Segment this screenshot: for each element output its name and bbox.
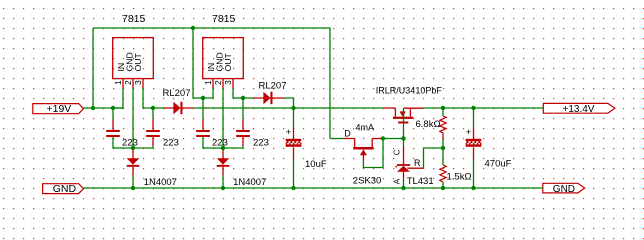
svg-text:3: 3 <box>223 80 233 85</box>
wire reg1 in pin <box>113 88 123 108</box>
junction C2 <box>151 106 155 110</box>
svg-text:223: 223 <box>253 138 269 149</box>
net tag GND left <box>43 184 84 194</box>
junction C6 gnd <box>471 186 475 190</box>
net tag GND right <box>543 183 585 193</box>
svg-text:IRLR/U3410PbF: IRLR/U3410PbF <box>376 86 443 96</box>
svg-text:223: 223 <box>212 138 228 149</box>
svg-text:+: + <box>466 127 472 138</box>
wire reg1 out pin <box>143 88 163 108</box>
wire 1.5k bottom <box>442 182 444 188</box>
wire mosfet gate <box>403 108 405 138</box>
junction C6 top <box>471 106 475 110</box>
wire 6.8k top <box>442 108 444 116</box>
capacitor C5 10uF plates <box>286 139 302 147</box>
svg-text:+19V: +19V <box>47 103 72 115</box>
diode 1N4007 D4 body <box>217 158 229 165</box>
wire main rail mid <box>193 107 384 109</box>
capacitor C2 plates <box>146 130 160 132</box>
regulator U1 pin stubs <box>123 79 143 88</box>
wire diode D4 to gnd rail <box>222 176 224 189</box>
junction C3 C4 gnd <box>221 146 225 150</box>
svg-text:2: 2 <box>123 80 133 85</box>
svg-text:1: 1 <box>113 80 123 85</box>
wire cap C5 bottom <box>293 159 295 189</box>
wire 1.5k top <box>442 148 444 165</box>
wire jfet gate loop <box>363 139 383 168</box>
diode RL207 D2 body <box>263 92 270 104</box>
junction divider node <box>441 146 445 150</box>
diode RL207 D2 leads <box>253 97 283 99</box>
wire main rail left <box>84 107 124 109</box>
svg-text:GND: GND <box>553 184 575 195</box>
capacitor C4 plates <box>236 130 250 132</box>
svg-text:RL207: RL207 <box>163 88 191 99</box>
svg-text:GND: GND <box>53 183 77 195</box>
jfet Q2 channel bar <box>353 147 373 150</box>
svg-text:2: 2 <box>213 80 223 85</box>
wire cap C3 bottom L <box>203 137 223 148</box>
junction C5 gnd <box>291 186 295 190</box>
capacitor C1 223 leads <box>112 120 114 130</box>
wire cap C2 top <box>152 108 154 120</box>
wire cap C5 top <box>293 108 295 128</box>
junction TL431 gnd <box>401 186 405 190</box>
TL431 U3 leads <box>404 146 424 178</box>
regulator U1 7815 box <box>113 38 154 79</box>
wire diode D2 output drop <box>283 98 294 108</box>
svg-text:C: C <box>393 149 402 155</box>
wire reg2 input riser <box>193 28 213 98</box>
junction gate node <box>401 136 405 140</box>
wire diode D3 to gnd rail <box>132 176 134 189</box>
svg-text:470uF: 470uF <box>485 158 512 169</box>
svg-text:223: 223 <box>122 138 138 149</box>
mosfet Q1 substrate arrow <box>400 111 405 113</box>
wire reg2 gnd pin <box>222 88 224 149</box>
resistor R2 1.5k zigzag <box>440 165 446 182</box>
wire cap C3 top <box>202 98 204 120</box>
capacitor C1 plates <box>106 130 120 132</box>
wire TL431 ref to divider <box>424 148 444 168</box>
svg-text:RL207: RL207 <box>259 81 287 92</box>
junction reg2 in <box>201 96 205 100</box>
wire cap C6 bottom <box>473 159 475 189</box>
junction C1 C2 gnd <box>131 146 135 150</box>
capacitor C6 470uF leads <box>473 128 475 159</box>
svg-text:+13.4V: +13.4V <box>563 104 595 115</box>
junction D4 gnd <box>221 186 225 190</box>
wire jfet D feed <box>330 138 343 140</box>
diode RL207 D1 leads <box>163 107 193 109</box>
TL431 U3 body <box>397 164 410 166</box>
wire reg2 out pin <box>233 88 253 98</box>
junction D2 output <box>291 106 295 110</box>
capacitor C5 10uF leads <box>293 128 295 159</box>
diode RL207 D1 body <box>173 102 180 114</box>
junction reg2 out <box>241 96 245 100</box>
jfet Q2 2SK30 leads and stubs <box>343 139 383 161</box>
wire reg1 gnd pin <box>132 88 134 149</box>
capacitor C2 223 leads <box>152 120 154 146</box>
junction 1.5k gnd <box>441 186 445 190</box>
svg-text:D: D <box>344 128 351 138</box>
regulator U2 7815 box <box>203 38 244 79</box>
svg-text:1N4007: 1N4007 <box>233 177 266 188</box>
wire 6.8k bottom node <box>442 139 444 149</box>
wire cap C4 top <box>242 98 244 120</box>
svg-text:TL431: TL431 <box>407 176 434 187</box>
diode 1N4007 D3 body <box>127 158 139 165</box>
junction jfet source <box>381 136 385 140</box>
junction top rail reg2 <box>191 26 195 30</box>
net tag +19V <box>33 104 84 114</box>
svg-text:1.5kΩ: 1.5kΩ <box>447 172 472 183</box>
junction D3 gnd <box>131 186 135 190</box>
svg-text:7815: 7815 <box>122 13 146 25</box>
svg-text:A: A <box>393 178 402 184</box>
svg-text:2SK30: 2SK30 <box>353 175 382 186</box>
svg-text:6.8kΩ: 6.8kΩ <box>416 119 441 130</box>
svg-text:7815: 7815 <box>212 13 236 25</box>
wire cap C1 bottom L <box>113 137 133 148</box>
junction 6.8k top <box>441 106 445 110</box>
wire TL431 cathode <box>403 139 405 147</box>
junction C1 <box>111 106 115 110</box>
mosfet Q1 leads and stubs <box>384 108 423 117</box>
svg-text:R: R <box>414 158 421 168</box>
svg-text:10uF: 10uF <box>305 159 327 170</box>
capacitor C3 plates <box>196 130 210 132</box>
wire cap C1 top <box>112 108 114 120</box>
wire TL431 anode to gnd <box>403 179 405 188</box>
resistor R1 6.8k zigzag <box>440 116 446 139</box>
regulator U2 pin stubs <box>213 79 233 88</box>
svg-text:+: + <box>286 127 292 138</box>
wire main rail right <box>423 107 544 109</box>
net tag +13.4V <box>543 103 615 113</box>
wire jfet source node <box>383 138 404 140</box>
wire bottom rail <box>84 187 543 189</box>
wire cap C2 bottom L <box>133 146 153 148</box>
svg-text:OUT: OUT <box>223 52 233 71</box>
jfet Q2 gate arrow <box>360 149 367 155</box>
capacitor C6 470uF plates <box>466 139 482 147</box>
diode 1N4007 D4 leads <box>222 149 224 176</box>
wire +19V riser <box>92 28 94 108</box>
svg-text:OUT: OUT <box>133 52 143 71</box>
svg-text:1N4007: 1N4007 <box>144 177 177 188</box>
junction +19V riser <box>91 106 95 110</box>
wire cap C6 top <box>473 108 475 128</box>
wire top rail <box>93 28 330 139</box>
mosfet Q1 body bars <box>393 117 413 119</box>
svg-text:223: 223 <box>163 138 179 149</box>
svg-text:3: 3 <box>133 80 143 85</box>
capacitor C4 223 leads <box>242 120 244 146</box>
svg-text:1: 1 <box>203 80 213 85</box>
wire cap C4 bottom L <box>223 146 243 148</box>
svg-text:4mA: 4mA <box>356 123 375 133</box>
diode 1N4007 D3 leads <box>132 149 134 176</box>
capacitor C3 223 leads <box>202 120 204 130</box>
